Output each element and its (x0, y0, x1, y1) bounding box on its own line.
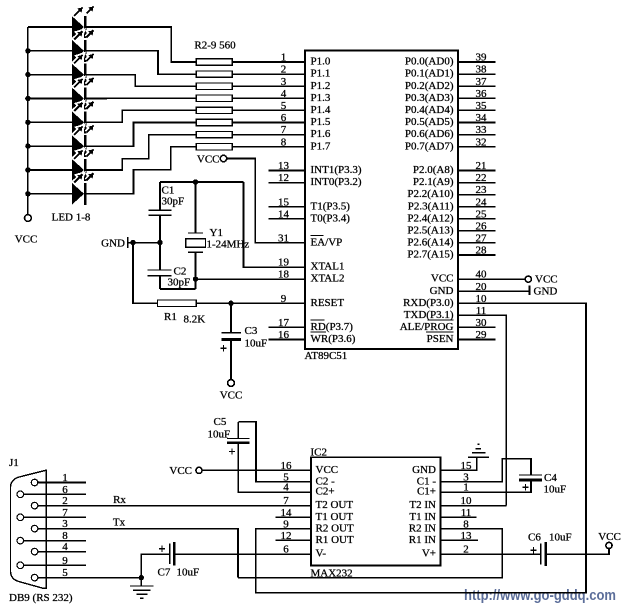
wire pin5 C2- to C5 top (238, 422, 311, 482)
svg-text:T2 OUT: T2 OUT (316, 499, 354, 511)
wire R9 to P1.7 pin 8 (232, 146, 305, 148)
wire DB9 pin5 to earth (38, 577, 141, 579)
svg-text:16: 16 (278, 329, 290, 341)
wire anode LED5 (28, 121, 72, 123)
pin stub 34 (458, 122, 496, 124)
wire R5 to P1.3 pin 4 (232, 97, 305, 99)
connector J1 DB9 shell (11, 470, 47, 588)
LED D3 emission arrows (74, 53, 95, 64)
LED D1 emission arrows (74, 5, 95, 16)
wire C7 to ground (141, 554, 169, 578)
pin stub 35 (458, 109, 496, 111)
svg-text:P2.3(A11): P2.3(A11) (408, 200, 454, 212)
pin stub 32 (458, 146, 496, 148)
svg-text:32: 32 (476, 136, 487, 148)
svg-text:WR(P3.6): WR(P3.6) (311, 333, 356, 345)
junction GND-C1C2 (157, 240, 162, 245)
polarity + C5 (229, 448, 235, 454)
pin stub 25 (458, 218, 496, 220)
svg-text:ALE/PROG: ALE/PROG (400, 321, 454, 333)
svg-text:5: 5 (281, 100, 287, 112)
resistor R3 (196, 71, 232, 77)
wire RXD(P3.0) to MAX232 R2 OUT (256, 303, 586, 592)
wire R2 to P1.0 pin 1 (232, 61, 305, 63)
wire LED4 cathode to R5 (86, 97, 196, 99)
svg-text:P0.5(AD5): P0.5(AD5) (405, 116, 454, 128)
DB9 pin stub 6 (24, 493, 86, 495)
LED D2 emission arrows (74, 29, 95, 40)
LED D8 emission arrows (74, 172, 95, 183)
node VCC terminal (LED rail) (25, 215, 32, 222)
svg-text:P2.0(A8): P2.0(A8) (413, 164, 454, 176)
pin stub 17 (269, 326, 305, 328)
LED D6 emission arrows (74, 124, 95, 135)
svg-text:35: 35 (476, 100, 488, 112)
svg-text:12: 12 (278, 172, 289, 184)
svg-text:VCC: VCC (535, 273, 558, 285)
DB9 hole pin 4 (31, 548, 38, 555)
svg-text:30pF: 30pF (168, 276, 191, 288)
wire C2 bottom lead (159, 276, 161, 289)
svg-text:34: 34 (476, 112, 488, 124)
junction rail-LED4 (25, 96, 30, 101)
node VCC terminal (EA) (220, 155, 226, 161)
svg-text:Tx: Tx (113, 516, 126, 528)
DB9 hole pin 2 (31, 502, 38, 509)
wire anode LED3 (28, 74, 72, 76)
svg-text:C1+: C1+ (417, 486, 436, 498)
wire LED7 cathode to R8 (86, 135, 196, 170)
wire pin40 to VCC (458, 278, 525, 280)
svg-text:VCC: VCC (197, 153, 220, 165)
wire LED8 cathode to R9 (86, 147, 196, 194)
capacitor C4 10uF (519, 475, 542, 480)
resistor R9 (196, 144, 232, 150)
DB9 hole pin 5 (31, 574, 38, 581)
capacitor C1 30pF (149, 210, 172, 215)
pin stub 26 (458, 230, 496, 232)
junction XTAL2 tap (193, 276, 198, 281)
junction rail-LED8 (25, 191, 30, 196)
DB9 hole pin 1 (31, 479, 38, 486)
svg-text:C3: C3 (245, 325, 258, 337)
svg-text:P0.7(AD7): P0.7(AD7) (405, 140, 454, 152)
svg-text:13: 13 (278, 160, 290, 172)
pin stub 39 (458, 61, 496, 63)
overline EA (311, 235, 324, 237)
svg-text:21: 21 (476, 160, 487, 172)
wire to XTAL2 pin 18 (196, 278, 306, 280)
svg-text:VCC: VCC (316, 464, 339, 476)
LED D5 emission arrows (74, 100, 95, 111)
svg-text:2: 2 (281, 64, 287, 76)
overline RD (311, 319, 325, 321)
wire R1 to RESET pin 9 (196, 302, 305, 304)
wire VCC rail (LED anodes common) (27, 27, 29, 215)
svg-text:TXD(P3.1): TXD(P3.1) (404, 309, 454, 321)
pin stub 38 (458, 73, 496, 75)
svg-text:J1: J1 (9, 457, 19, 469)
svg-text:C4: C4 (544, 472, 557, 484)
svg-text:P2.1(A9): P2.1(A9) (413, 176, 454, 188)
pin stub 14 (275, 516, 311, 518)
wire pin3 C1- to C4 top (441, 459, 531, 482)
pin stub 37 (458, 85, 496, 87)
svg-text:T0(P3.4): T0(P3.4) (311, 212, 351, 224)
svg-text:GND: GND (430, 285, 454, 297)
svg-text:http://www.go-gddq.com: http://www.go-gddq.com (464, 587, 616, 604)
LED D7 emission arrows (74, 148, 95, 159)
svg-text:27: 27 (476, 233, 488, 245)
svg-text:9: 9 (281, 293, 287, 305)
wire anode LED6 (28, 145, 72, 147)
junction rail-LED2 (25, 48, 30, 53)
svg-text:P1.0: P1.0 (311, 56, 331, 68)
svg-text:31: 31 (278, 233, 289, 245)
svg-text:R1: R1 (164, 311, 177, 323)
pin stub 29 (458, 338, 496, 340)
wire anode LED4 (28, 97, 72, 99)
wire pin20 to GND (458, 290, 530, 292)
svg-text:10uF: 10uF (549, 531, 572, 543)
LED D7 (72, 159, 87, 181)
svg-text:33: 33 (476, 124, 488, 136)
svg-text:P1.2: P1.2 (311, 80, 331, 92)
LED D2 (72, 40, 87, 62)
resistor R6 (196, 107, 232, 113)
wire R4 to P1.2 pin 3 (232, 85, 305, 87)
svg-text:P1.7: P1.7 (311, 140, 331, 152)
svg-text:18: 18 (278, 269, 290, 281)
svg-text:C6: C6 (528, 531, 541, 543)
pin stub 12 (269, 182, 305, 184)
pin stub 14 (269, 218, 305, 220)
svg-text:IC2: IC2 (311, 446, 328, 458)
pin stub 36 (458, 97, 496, 99)
wire GND down to R1 (133, 243, 157, 304)
svg-text:7: 7 (281, 124, 287, 136)
svg-text:C7: C7 (158, 566, 171, 578)
svg-text:R2 OUT: R2 OUT (316, 522, 354, 534)
svg-text:P0.6(AD6): P0.6(AD6) (405, 128, 454, 140)
resistor R4 (196, 83, 232, 89)
pin stub 33 (458, 134, 496, 136)
pin stub 23 (458, 194, 496, 196)
junction GND-R1 branch (130, 240, 135, 245)
svg-text:Rx: Rx (113, 494, 126, 506)
svg-text:VCC: VCC (169, 465, 192, 477)
svg-text:V-: V- (316, 548, 327, 560)
wire C4 bottom to pin1 C1+ (441, 480, 531, 492)
capacitor C2 30pF (148, 270, 172, 276)
GND terminal tick (pin20) (529, 286, 531, 296)
svg-text:GND: GND (101, 237, 125, 249)
svg-text:26: 26 (476, 220, 488, 232)
svg-text:39: 39 (476, 52, 488, 64)
IC IC2 MAX232 body (311, 457, 441, 565)
svg-text:17: 17 (278, 317, 290, 329)
svg-text:AT89C51: AT89C51 (305, 350, 348, 362)
pin stub 28 (458, 254, 496, 256)
overline PSEN (426, 331, 454, 333)
capacitor C3 10uF (222, 333, 241, 340)
svg-text:P0.1(AD1): P0.1(AD1) (405, 68, 454, 80)
wire GND to C1/C2 junction (128, 242, 160, 244)
capacitor C7 10uF (170, 542, 175, 565)
LED D8 (72, 183, 87, 205)
svg-text:P2.4(A12): P2.4(A12) (407, 212, 453, 224)
svg-text:VCC: VCC (598, 531, 621, 543)
DB9 pin stub 9 (24, 564, 86, 566)
svg-text:6: 6 (281, 112, 287, 124)
LED D4 (72, 87, 87, 109)
ground earth (pin15, inverted) (468, 444, 489, 457)
wire R3 to P1.1 pin 2 (232, 73, 305, 75)
svg-text:RD(P3.7): RD(P3.7) (311, 321, 354, 333)
svg-text:T1(P3.5): T1(P3.5) (311, 200, 351, 212)
DB9 hole pin 9 (17, 562, 24, 569)
wire C3 top lead (230, 303, 232, 333)
ground earth (C7) (130, 586, 154, 598)
wire R7 to P1.5 pin 6 (232, 122, 305, 124)
svg-text:R2-9 560: R2-9 560 (194, 39, 236, 51)
svg-text:P2.6(A14): P2.6(A14) (407, 237, 453, 249)
wire LED5 cathode to R6 (86, 110, 196, 122)
junction rail-LED3 (25, 72, 30, 77)
GND terminal tick (127, 237, 129, 248)
svg-text:P1.1: P1.1 (311, 68, 331, 80)
DB9 pin stub 1 (38, 482, 86, 484)
wire C6 to VCC (546, 549, 609, 555)
svg-text:VCC: VCC (220, 389, 243, 401)
junction rail-LED6 (25, 143, 30, 148)
wire anode LED1 (28, 26, 72, 28)
svg-text:19: 19 (278, 257, 290, 269)
svg-text:1: 1 (281, 52, 287, 64)
svg-text:10uF: 10uF (544, 483, 567, 495)
pin stub 21 (458, 170, 496, 172)
svg-text:15: 15 (278, 196, 290, 208)
pin stub 16 (269, 338, 305, 340)
junction RESET-C3 (228, 301, 233, 306)
wire C5 bottom to pin4 C2+ (238, 444, 311, 493)
svg-text:P2.2(A10): P2.2(A10) (407, 188, 453, 200)
wire C3 to VCC (230, 341, 232, 380)
node VCC terminal (MAX232) (196, 467, 202, 473)
svg-text:Y1: Y1 (210, 227, 223, 239)
overline WR (311, 331, 327, 333)
svg-text:T2 IN: T2 IN (409, 499, 436, 511)
capacitor C6 10uF (541, 542, 546, 566)
svg-text:C5: C5 (214, 416, 227, 428)
svg-text:28: 28 (476, 245, 488, 257)
svg-text:8: 8 (281, 136, 287, 148)
svg-text:GND: GND (412, 464, 436, 476)
wire anode LED7 (28, 169, 72, 171)
svg-text:25: 25 (476, 208, 488, 220)
svg-text:P1.5: P1.5 (311, 116, 331, 128)
wire LED2 cathode to R3 (86, 51, 196, 74)
resistor R1 8.2K (157, 300, 196, 306)
wire DB9 pin3 Tx down (38, 529, 238, 578)
svg-text:22: 22 (476, 172, 487, 184)
svg-text:EA/VP: EA/VP (311, 237, 343, 249)
svg-text:VCC: VCC (15, 233, 38, 245)
LED D1 (72, 16, 87, 38)
svg-text:V+: V+ (422, 548, 436, 560)
wire C7 to V- pin6 (175, 553, 312, 555)
wire DB9 pin2 Rx to T2 OUT pin7 (38, 505, 311, 507)
node VCC terminal (pin40) (525, 276, 531, 282)
DB9 hole pin 8 (17, 537, 24, 544)
wire R6 to P1.4 pin 5 (232, 109, 305, 111)
DB9 pin stub 7 (24, 516, 86, 518)
wire C1-C2 lead (159, 215, 161, 270)
resistor R8 (196, 131, 232, 137)
DB9 hole pin 7 (17, 514, 24, 521)
wire to XTAL1 pin 19 (244, 182, 306, 267)
svg-text:10uF: 10uF (208, 428, 231, 440)
svg-text:P1.3: P1.3 (311, 92, 331, 104)
svg-text:RXD(P3.0): RXD(P3.0) (403, 297, 454, 309)
svg-text:C2+: C2+ (316, 486, 335, 498)
svg-text:23: 23 (476, 184, 488, 196)
wire LED3 cathode to R4 (86, 75, 196, 87)
pin stub 27 (458, 242, 496, 244)
wire XTAL top (C1-Y1-XTAL1) (160, 181, 244, 183)
svg-text:INT0(P3.2): INT0(P3.2) (311, 176, 362, 188)
junction rail-LED5 (25, 120, 30, 125)
wire R8 to P1.6 pin 7 (232, 134, 305, 136)
svg-text:P2.5(A13): P2.5(A13) (407, 224, 453, 236)
junction rail-LED7 (25, 167, 30, 172)
svg-text:10uF: 10uF (245, 337, 268, 349)
svg-text:P0.4(AD4): P0.4(AD4) (405, 104, 454, 116)
svg-text:36: 36 (476, 88, 488, 100)
svg-text:INT1(P3.3): INT1(P3.3) (311, 164, 362, 176)
svg-text:XTAL1: XTAL1 (311, 261, 345, 273)
svg-text:37: 37 (476, 76, 488, 88)
wire C1 top lead (159, 182, 161, 210)
svg-text:30pF: 30pF (162, 195, 185, 207)
svg-text:38: 38 (476, 64, 488, 76)
svg-text:9: 9 (283, 518, 289, 530)
node VCC terminal (reset) (228, 380, 235, 387)
LED D6 (72, 135, 87, 157)
wire VCC to pin16 (202, 469, 311, 471)
wire anode LED2 (28, 50, 72, 52)
svg-text:RESET: RESET (311, 297, 345, 309)
polarity + C3 (220, 345, 226, 351)
svg-text:8.2K: 8.2K (184, 313, 206, 325)
DB9 hole pin 3 (31, 525, 38, 532)
DB9 pin stub 4 (38, 551, 86, 553)
svg-text:PSEN: PSEN (427, 333, 454, 345)
pin stub 30 (458, 326, 496, 328)
svg-text:DB9 (RS 232): DB9 (RS 232) (9, 592, 73, 604)
wire ground lead (140, 578, 142, 586)
svg-text:T1 IN: T1 IN (409, 511, 436, 523)
junction ground (139, 575, 144, 580)
svg-text:4: 4 (281, 88, 287, 100)
DB9 pin stub 8 (24, 540, 86, 542)
svg-text:P0.2(AD2): P0.2(AD2) (405, 80, 454, 92)
wire C5 top lead (237, 422, 239, 438)
svg-text:P0.0(AD0): P0.0(AD0) (405, 56, 454, 68)
wire anode LED8 (28, 193, 72, 195)
wire LED6 cathode to R7 (86, 123, 196, 147)
pin stub 24 (458, 206, 496, 208)
node VCC terminal (C6) (606, 542, 612, 548)
svg-text:XTAL2: XTAL2 (311, 273, 345, 285)
LED D3 (72, 64, 87, 86)
svg-text:P1.6: P1.6 (311, 128, 331, 140)
svg-text:T1 OUT: T1 OUT (316, 511, 354, 523)
wire LED1 cathode to R2 (86, 27, 196, 62)
svg-text:P1.4: P1.4 (311, 104, 331, 116)
svg-text:LED 1-8: LED 1-8 (52, 211, 91, 223)
svg-text:P0.3(AD3): P0.3(AD3) (405, 92, 454, 104)
svg-text:24: 24 (476, 196, 488, 208)
svg-text:R1 IN: R1 IN (409, 534, 436, 546)
svg-text:14: 14 (278, 208, 290, 220)
crystal Y1 1-24MHz (186, 182, 206, 289)
wire VCC to EA/VP pin 31 (227, 159, 305, 243)
wire R2 IN pin8 to Tx (238, 529, 502, 578)
svg-text:10uF: 10uF (177, 566, 200, 578)
resistor R5 (196, 95, 232, 101)
wire TXD(P3.1) to MAX232 T2 IN (458, 315, 506, 505)
svg-text:3: 3 (281, 76, 287, 88)
IC U1 AT89C51 body (305, 51, 458, 350)
pin stub 13 (269, 170, 305, 172)
svg-text:R1 OUT: R1 OUT (316, 534, 354, 546)
wire XTAL bottom (160, 288, 196, 290)
pin stub 11 (441, 516, 477, 518)
svg-text:P2.7(A15): P2.7(A15) (407, 249, 453, 261)
LED D5 (72, 111, 87, 133)
pin stub 12 (275, 539, 311, 541)
pin stub 15 (269, 206, 305, 208)
svg-text:GND: GND (534, 286, 558, 298)
overline PROG (428, 319, 454, 321)
polarity + C6 (530, 547, 536, 553)
polarity + C7 (159, 546, 165, 552)
pin stub 10 (T2 IN) (441, 505, 507, 507)
capacitor C5 10uF (227, 439, 249, 443)
wire pin15 GND to earth (441, 457, 477, 470)
DB9 hole pin 6 (17, 491, 24, 498)
junction Y1 top (193, 179, 198, 184)
svg-text:R2 IN: R2 IN (409, 522, 436, 534)
wire V+ pin2 to C6 (441, 553, 541, 555)
pin stub 22 (458, 182, 496, 184)
LED D4 emission arrows (74, 76, 95, 87)
resistor R7 (196, 119, 232, 125)
polarity + C4 (522, 484, 528, 490)
svg-text:VCC: VCC (431, 273, 454, 285)
pin stub 13 (441, 539, 478, 541)
resistor R2 (196, 59, 232, 65)
